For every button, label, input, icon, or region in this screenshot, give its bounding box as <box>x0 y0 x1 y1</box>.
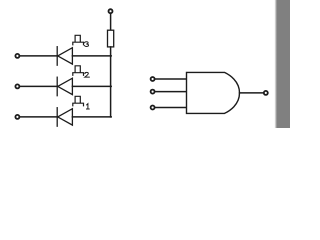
wire input1 to diode D3 <box>20 55 57 57</box>
label subscript 1 <box>87 104 90 109</box>
wire input2 to diode D2 <box>20 85 57 87</box>
gate input terminal 2 <box>151 90 155 94</box>
label subscript 2 <box>85 72 90 77</box>
label Д3 glyph <box>72 35 84 46</box>
diode D2 triangle <box>58 78 73 94</box>
diode D2 cathode bar <box>56 77 58 96</box>
wire gate input 1 <box>155 78 186 80</box>
input terminal 1 <box>15 54 19 58</box>
wire diode D3 to node <box>72 55 111 57</box>
wire common node column <box>110 47 112 117</box>
diode D3 cathode bar <box>56 47 58 65</box>
AND gate U1 body <box>187 72 240 113</box>
diode D1 triangle <box>58 109 73 125</box>
gate input terminal 3 <box>151 106 155 110</box>
gate input terminal 1 <box>151 77 155 81</box>
input terminal 3 <box>15 115 19 119</box>
terminal V+ (supply, top) <box>109 9 113 13</box>
wire supply to resistor <box>110 14 112 30</box>
input terminal 2 <box>15 84 19 88</box>
label Д2 glyph <box>72 65 84 76</box>
label subscript 3 <box>85 42 89 47</box>
wire input3 to diode D1 <box>20 116 57 118</box>
page edge gray bar <box>277 0 290 128</box>
diode D3 triangle <box>58 48 73 64</box>
wire gate output <box>240 92 264 94</box>
wire diode D1 to node corner <box>72 116 111 118</box>
resistor R <box>108 30 114 47</box>
diode D1 cathode bar <box>56 108 58 127</box>
wire gate input 2 <box>155 91 186 93</box>
output terminal <box>264 91 268 95</box>
label Д1 glyph <box>72 96 84 107</box>
wire gate input 3 <box>155 107 186 109</box>
wire diode D2 to node <box>72 85 111 87</box>
